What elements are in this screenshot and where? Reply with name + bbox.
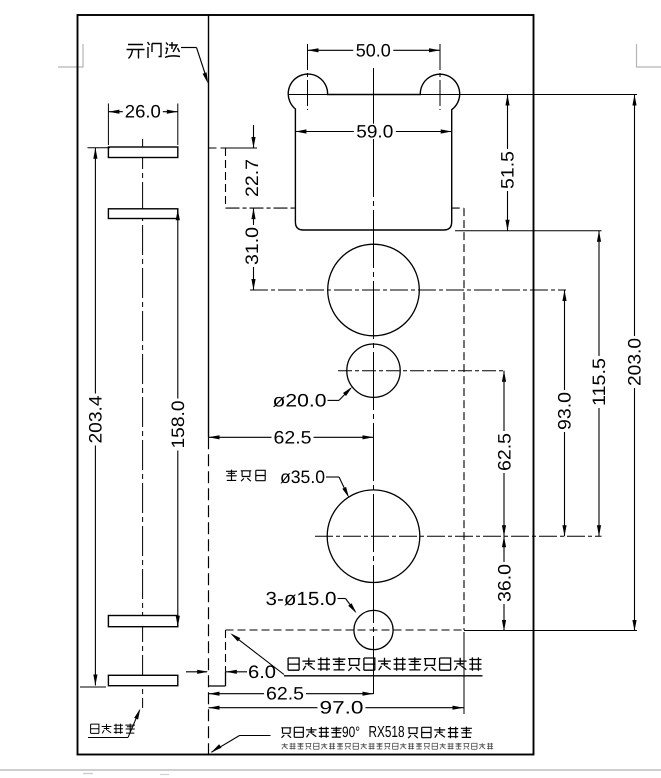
svg-text:62.5: 62.5	[494, 433, 514, 471]
dash-dot line y208 left	[226, 207, 296, 209]
leader for 开门边	[181, 47, 197, 49]
extension line y630 right	[464, 630, 637, 632]
svg-text:203.4: 203.4	[85, 396, 105, 444]
svg-text:62.5: 62.5	[266, 684, 304, 704]
dim 62.5 right line	[503, 371, 505, 537]
dim 50.0 text	[353, 43, 393, 58]
label 把手孔	[226, 470, 237, 481]
svg-text:115.5: 115.5	[589, 358, 609, 406]
dim 62.5 right text	[496, 431, 512, 473]
dim 97.0 text	[318, 700, 366, 715]
svg-text:203.0: 203.0	[624, 338, 644, 386]
title 此处可折弯	[281, 728, 291, 738]
dim 31.0 line	[253, 208, 255, 290]
slot S1	[108, 147, 177, 158]
dim 50.0 line	[308, 49, 441, 51]
title leader	[211, 744, 221, 752]
leader ø35.0	[326, 476, 339, 478]
slot S2	[108, 209, 177, 219]
label 开门边	[127, 42, 181, 59]
dim 31.0 text	[244, 225, 260, 267]
dim 62.5 bottom text	[264, 686, 306, 701]
svg-text:59.0: 59.0	[356, 122, 393, 142]
dim 203.0 text	[626, 336, 642, 388]
svg-text:ø35.0: ø35.0	[280, 467, 325, 487]
dim 62.5 mid text	[272, 430, 314, 445]
dim 59.0 line	[295, 131, 451, 133]
dashed rect bottom edge	[226, 629, 465, 631]
dim 93.0 line	[564, 290, 566, 536]
dim 36.0 line	[503, 536, 505, 631]
svg-text:158.0: 158.0	[168, 401, 188, 449]
svg-text:RX518: RX518	[369, 724, 405, 741]
svg-text:26.0: 26.0	[125, 102, 161, 122]
hole circle C2 (ø20)	[347, 344, 400, 397]
ear centerline right	[439, 44, 441, 110]
dim 62.5 mid line	[209, 436, 374, 438]
page margin mark top-left	[82, 44, 84, 68]
dim 26.0 text	[123, 104, 163, 119]
dim 115.5 line	[598, 231, 600, 536]
C1 centerline	[250, 289, 566, 291]
svg-text:22.7: 22.7	[242, 159, 262, 197]
fold line dashed lower part	[208, 437, 210, 754]
dim 203.4 text	[87, 394, 103, 446]
svg-text:3-ø15.0: 3-ø15.0	[266, 589, 337, 610]
dashed line y208 right	[452, 207, 464, 209]
dim 97.0 line	[209, 707, 464, 709]
main vertical centerline	[373, 68, 375, 694]
svg-text:51.5: 51.5	[497, 151, 517, 189]
hole circle C3 (ø35 handle hole)	[327, 490, 420, 583]
ear centerline left	[307, 44, 309, 110]
flap centerline	[142, 139, 144, 708]
template plate outline	[78, 15, 534, 755]
dim 36.0 text	[496, 562, 512, 604]
leader ø20.0	[328, 399, 340, 401]
fold line (door-opening edge) solid part	[208, 15, 210, 437]
dim 203.4 line	[94, 148, 96, 686]
dashed tail below rect	[225, 630, 227, 672]
leader for 门厚中心	[88, 737, 128, 739]
dim 6.0 arrows	[186, 671, 207, 673]
dim 51.5 line	[507, 95, 509, 231]
svg-text:93.0: 93.0	[554, 392, 574, 430]
title small note	[282, 743, 288, 749]
leader 3-ø15.0	[338, 598, 346, 600]
extension line y230.8	[455, 230, 602, 232]
note underline	[284, 675, 483, 677]
slot S4	[108, 675, 177, 685]
dim 93.0 text	[556, 390, 572, 432]
svg-text:31.0: 31.0	[242, 227, 262, 265]
title 锁芯开孔图	[408, 728, 418, 738]
dim 158.0 line	[177, 209, 179, 626]
label 门厚中心	[91, 724, 99, 733]
dashed rect right edge	[463, 208, 465, 630]
dim 26.0 extension lines	[107, 104, 109, 146]
page bottom rule	[0, 769, 661, 771]
svg-text:97.0: 97.0	[320, 698, 364, 718]
hole circle C4 (ø15)	[354, 610, 393, 649]
dim 62.5 bottom line	[209, 693, 374, 695]
svg-text:50.0: 50.0	[356, 40, 391, 60]
svg-text:62.5: 62.5	[274, 427, 312, 447]
C3 centerline	[315, 535, 602, 537]
dim 22.7 upper stub	[253, 125, 255, 148]
page margin mark top-right	[636, 44, 638, 68]
dim 22.7 tick	[226, 147, 258, 149]
dim 115.5 text	[591, 356, 607, 408]
dim 26.0 line	[108, 111, 177, 113]
svg-text:36.0: 36.0	[494, 564, 514, 602]
svg-text:90°: 90°	[342, 724, 360, 741]
dim 203.4 ticks	[88, 147, 111, 149]
extension line x464 solid	[463, 632, 465, 714]
dim 51.5 text	[499, 149, 515, 191]
notch solid lines	[225, 672, 227, 686]
dim 203.0 line	[634, 95, 636, 632]
dim 158.0 text	[170, 399, 186, 451]
dim 59.0 text	[354, 124, 396, 139]
page bottom small marks	[83, 773, 93, 775]
svg-text:ø20.0: ø20.0	[273, 391, 327, 411]
leader for dashed-rect note	[232, 635, 284, 675]
C2 centerline	[338, 370, 506, 372]
top edge / extension line y94.5	[288, 94, 637, 96]
dashed step top	[209, 147, 226, 149]
slot S3	[108, 616, 177, 627]
dim 22.7 text	[244, 157, 260, 199]
hole circle C1 (upper ø35)	[328, 244, 420, 336]
note 虚线为锁芯在门中的安装孔位	[288, 658, 299, 670]
lock body outline	[288, 74, 459, 230]
